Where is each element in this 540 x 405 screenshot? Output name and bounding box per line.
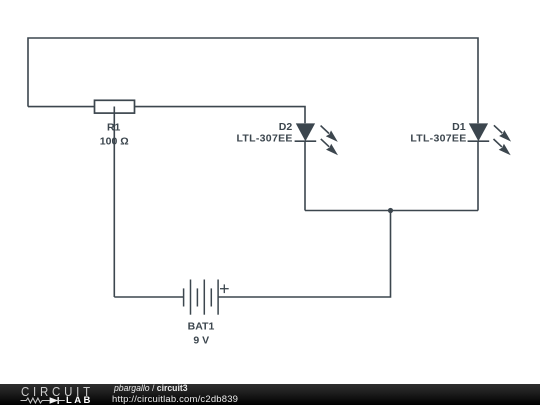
wire D1 cathode down bbox=[477, 141, 479, 210]
led D1 bbox=[468, 123, 512, 155]
logo LAB text bbox=[66, 395, 93, 405]
battery BAT1 bbox=[184, 280, 219, 315]
wire bottom rail between D2 and D1 bbox=[305, 210, 478, 212]
svg-text:LTL-307EE: LTL-307EE bbox=[237, 133, 293, 145]
svg-text:100 Ω: 100 Ω bbox=[100, 135, 129, 147]
footer credit line bbox=[114, 383, 188, 394]
wire battery negative lead bbox=[114, 296, 183, 298]
svg-text:D1: D1 bbox=[452, 121, 466, 133]
svg-text:9 V: 9 V bbox=[193, 334, 209, 346]
wire R1 left lead bbox=[28, 106, 95, 108]
wire junction to battery positive bbox=[218, 211, 390, 298]
CircuitLab logo wordmark bbox=[21, 384, 94, 399]
wire top rail with left and right drops bbox=[28, 38, 478, 123]
resistor R1 bbox=[95, 100, 135, 113]
svg-text:BAT1: BAT1 bbox=[188, 321, 215, 333]
wire D2 cathode down bbox=[304, 141, 306, 210]
logo mini schematic: wire, resistor zigzag, diode bbox=[20, 395, 70, 405]
led D2 bbox=[295, 123, 338, 155]
wire left riser from R1 center to battery bbox=[113, 107, 115, 298]
footer url bbox=[112, 394, 238, 405]
node junction dot bbox=[388, 208, 393, 213]
battery plus sign bbox=[220, 284, 229, 293]
svg-text:R1: R1 bbox=[107, 122, 121, 134]
wire R1 right lead to D2 branch bbox=[135, 107, 306, 124]
footer bar bbox=[0, 384, 540, 405]
svg-text:LTL-307EE: LTL-307EE bbox=[410, 133, 466, 145]
svg-text:D2: D2 bbox=[279, 121, 293, 133]
